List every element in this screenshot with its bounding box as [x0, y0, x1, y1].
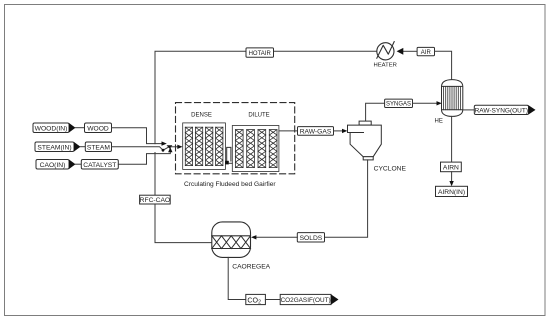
svg-text:DILUTE: DILUTE — [248, 113, 269, 119]
svg-text:DENSE: DENSE — [191, 113, 212, 119]
stream label AIR — [417, 47, 434, 56]
svg-text:WOOD: WOOD — [87, 125, 109, 132]
wire HE bottom to AIRN — [451, 116, 453, 162]
reactor bed DENSE — [183, 123, 226, 169]
heater U HEATER (circle with zigzag) — [377, 42, 394, 60]
wire SYNGAS arrow into HE — [413, 102, 438, 104]
svg-text:STEAM(IN): STEAM(IN) — [37, 144, 71, 151]
svg-text:SYNGAS: SYNGAS — [386, 102, 411, 108]
svg-text:RFC-CAO: RFC-CAO — [140, 197, 170, 204]
wire combined inlet arrow into gasifier — [171, 146, 178, 148]
svg-text:Crculating Fludeed bed Gairfie: Crculating Fludeed bed Gairfier — [184, 181, 276, 188]
stream label SOLDS — [297, 233, 324, 242]
stream label STEAM — [85, 142, 111, 152]
input tag CAO(IN) — [36, 160, 76, 170]
input tag STEAM(IN) — [35, 142, 81, 152]
wire cyclone bottom to SOLDS — [325, 160, 368, 237]
wire cyclone to SYNGAS to HE — [366, 103, 385, 121]
stream label SYNGAS — [385, 99, 413, 108]
stream label RAW-GAS — [298, 127, 334, 136]
output tag CO2GASIF(OUT) — [280, 294, 338, 304]
stream label AIRN — [441, 162, 462, 172]
wire HOTAIR vertical (heater to gasifier) — [155, 51, 377, 143]
wire STEAM to gasifier inlet — [112, 147, 170, 151]
svg-text:RAW-GAS: RAW-GAS — [300, 128, 332, 135]
svg-text:WOOD(IN): WOOD(IN) — [35, 125, 68, 132]
node AIRN(IN) — [436, 186, 468, 196]
wire AIR source from HE top — [435, 51, 452, 80]
svg-text:SOLDS: SOLDS — [300, 235, 323, 242]
svg-text:HE: HE — [435, 119, 443, 125]
svg-text:AIRN: AIRN — [443, 164, 459, 171]
wire RAW-GAS arrow into cyclone — [334, 130, 344, 132]
svg-text:RAW-SYNG(OUT): RAW-SYNG(OUT) — [475, 107, 528, 114]
junction dot steam — [162, 149, 165, 152]
svg-text:AIR: AIR — [421, 50, 432, 56]
cyclone U — [348, 121, 382, 160]
reactor bed DILUTE — [232, 126, 279, 172]
wire AIRN arrow to AIRN(IN) — [451, 172, 453, 182]
stream label CO2 — [246, 294, 266, 305]
svg-text:STEAM: STEAM — [87, 144, 110, 151]
stream label RFC-CAO — [140, 195, 171, 204]
wire STEAM(IN) to STEAM — [81, 146, 86, 148]
svg-text:CAO(IN): CAO(IN) — [40, 162, 66, 169]
svg-text:AIRN(IN): AIRN(IN) — [438, 189, 465, 196]
junction square — [225, 161, 229, 165]
svg-text:CO2GASIF(OUT): CO2GASIF(OUT) — [281, 297, 331, 304]
wire CAO(IN) to CATALYST — [76, 163, 82, 165]
wire CO2 to CO2GASIF(OUT) — [265, 299, 280, 301]
gasifier dashed box — [176, 103, 295, 174]
stream label CATALYST — [81, 160, 118, 170]
svg-text:CATALYST: CATALYST — [83, 162, 116, 169]
wire CAOREGEA bottom to CO2 — [228, 257, 246, 299]
wire CATALYST to gasifier inlet — [118, 151, 170, 165]
wire HE to RAW-SYNG(OUT) — [463, 109, 475, 111]
wire RFC-CAO vertical — [155, 153, 212, 243]
wire WOOD to gasifier inlet — [112, 128, 163, 144]
svg-text:HOTAIR: HOTAIR — [249, 51, 272, 57]
wire WOOD(IN) to WOOD — [76, 127, 85, 129]
svg-text:CYCLONE: CYCLONE — [374, 165, 407, 172]
wire AIR to heater with arrowhead — [403, 50, 418, 52]
wire connector DENSE to DILUTE — [227, 147, 231, 161]
output tag RAW-SYNG(OUT) — [474, 105, 535, 114]
svg-text:CAOREGEA: CAOREGEA — [232, 263, 270, 270]
input tag WOOD(IN) — [33, 123, 76, 133]
wire DILUTE to RAW-GAS — [279, 130, 298, 132]
svg-text:HEATER: HEATER — [373, 62, 396, 68]
heat exchanger U HE (cylinder with tube stripes) — [442, 80, 463, 117]
wire SOLDS arrow into CAOREGEA — [256, 236, 298, 238]
stream label WOOD — [85, 123, 112, 133]
regenerator U CAOREGEA — [212, 222, 251, 258]
stream label HOTAIR — [246, 48, 274, 57]
